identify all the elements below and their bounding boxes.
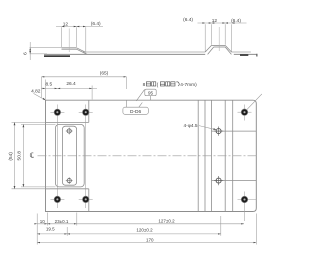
svg-text:12: 12 xyxy=(212,18,218,24)
svg-text:12: 12 xyxy=(63,21,69,27)
svg-text:127±0.2: 127±0.2 xyxy=(158,218,175,223)
svg-text:(65): (65) xyxy=(100,71,109,77)
svg-text:10: 10 xyxy=(40,219,46,224)
svg-text:50.8: 50.8 xyxy=(17,151,23,161)
svg-text:4-φ4.5: 4-φ4.5 xyxy=(183,123,197,129)
svg-text:(54): (54) xyxy=(8,152,14,161)
svg-text:8: 8 xyxy=(143,82,146,88)
svg-text:(6.4): (6.4) xyxy=(91,21,101,27)
svg-text:8.5: 8.5 xyxy=(45,82,52,88)
svg-text:(6.4): (6.4) xyxy=(231,18,241,24)
svg-text:D-D6: D-D6 xyxy=(130,109,142,115)
svg-text:(: ( xyxy=(157,82,159,88)
svg-text:26.4: 26.4 xyxy=(66,81,76,87)
svg-text:6: 6 xyxy=(23,52,29,55)
svg-text:95: 95 xyxy=(148,91,154,96)
svg-text:120±0.2: 120±0.2 xyxy=(136,228,153,233)
svg-text:(6.4): (6.4) xyxy=(183,17,193,23)
svg-text:19.5: 19.5 xyxy=(46,226,55,231)
svg-text:170: 170 xyxy=(146,237,154,242)
svg-text:4.82: 4.82 xyxy=(31,89,41,95)
svg-text:4-7mm): 4-7mm) xyxy=(180,82,197,88)
svg-text:23±0.1: 23±0.1 xyxy=(55,219,69,224)
